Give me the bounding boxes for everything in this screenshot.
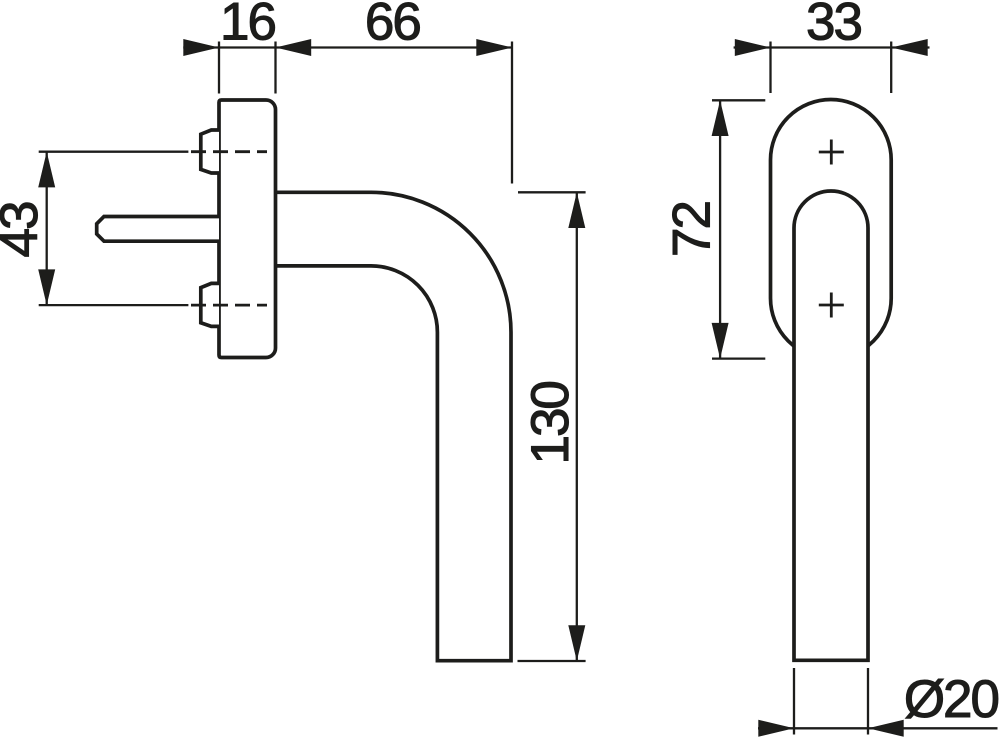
extension line grip right x868 [867, 668, 869, 735]
svg-text:16: 16 [220, 0, 275, 52]
dim 43 vertical line [46, 152, 48, 305]
centerline screw top (dashed) [191, 150, 267, 153]
dim 130 vertical line [576, 192, 578, 661]
extension line stadium top y100 [712, 99, 765, 101]
rosette stadium outline (front view) [771, 100, 892, 359]
svg-text:66: 66 [365, 0, 420, 52]
svg-text:Ø20: Ø20 [904, 670, 999, 729]
extension line screw top centerline [39, 151, 189, 153]
arrowhead 130 top (points up) [568, 192, 585, 228]
extension line handle bottom y661 [518, 660, 586, 662]
arrowhead 16/66 shared (points left) [276, 39, 312, 56]
svg-text:72: 72 [663, 202, 722, 257]
centerline screw bottom (dashed) [191, 304, 267, 307]
extension line plate left x219 [218, 42, 220, 94]
arrowhead 43 top (points up) [38, 152, 55, 188]
arrowhead 33 left (outside, points right) [735, 39, 771, 56]
arrowhead 72 bottom (points down) [712, 323, 729, 359]
arrowhead 33 right (outside, points left) [891, 39, 928, 56]
screw cross mark top (front view) [819, 140, 844, 165]
extension line grip left x794 [793, 668, 795, 735]
arrowhead 16 left (outside, points right) [183, 39, 219, 56]
arrowhead 130 bottom (points down) [568, 625, 585, 661]
extension line stadium bottom y358.6 [712, 357, 765, 359]
svg-text:130: 130 [521, 382, 580, 465]
arrowhead diameter20 left (outside, points right) [758, 720, 794, 737]
dim line 33 horizontal [734, 46, 930, 48]
svg-text:43: 43 [0, 202, 49, 257]
svg-text:33: 33 [806, 0, 861, 52]
arrowhead diameter20 right (outside, points left) [868, 720, 904, 737]
extension line screw bottom centerline [39, 304, 189, 306]
dim line 16/66 horizontal [183, 46, 512, 48]
extension line handle outer x512 [511, 42, 513, 184]
handle grip (front view) [794, 191, 868, 660]
extension line stadium right x891.2 [890, 42, 892, 94]
spindle (square bar, side view) [97, 217, 219, 242]
handle lever (side view) [276, 192, 512, 660]
dim 72 vertical line [719, 100, 721, 358]
arrowhead 72 top (points up) [712, 100, 729, 136]
extension line handle top y192 [518, 191, 586, 193]
screw head bottom (side view) [201, 283, 219, 326]
arrowhead 66 right (points right) [476, 39, 512, 56]
arrowhead 43 bottom (points down) [38, 269, 55, 305]
screw cross mark bottom (front view) [819, 293, 844, 318]
extension line plate right x275.5 [274, 42, 276, 94]
rosette plate (side view) [219, 100, 276, 358]
extension line stadium left x770.5 [769, 42, 771, 94]
screw head top (side view) [201, 130, 219, 173]
dim line diameter 20 horizontal [758, 727, 998, 729]
